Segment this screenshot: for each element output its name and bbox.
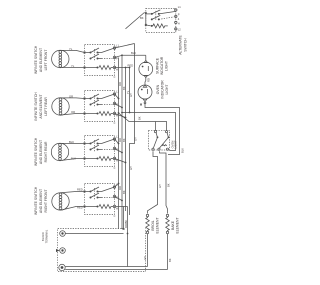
svg-text:OR: OR [69,94,73,98]
svg-text:LIGHT: LIGHT [165,61,169,71]
svg-text:BLOCK: BLOCK [41,232,45,241]
x mark below oven indicator [140,104,142,106]
row4 diagonals [115,184,119,188]
wire broil down [147,234,149,267]
bake element [166,214,170,233]
svg-text:INDICATOR: INDICATOR [161,80,165,99]
svg-text:AND ELEMENT: AND ELEMENT [39,189,43,213]
svg-text:C: C [114,122,116,125]
svg-text:BK: BK [122,190,126,194]
wire wrap 2 [122,113,176,151]
row1 wire RED to bus [115,67,130,69]
wire BU bottom row3 [62,159,85,161]
svg-text:AND ELEMENT: AND ELEMENT [39,48,43,72]
wire BLK to surface indicator [122,54,146,56]
svg-text:RD: RD [118,186,122,190]
svg-text:BROIL: BROIL [151,220,155,230]
terminal labels row4 [116,183,119,211]
terminal N [59,264,65,270]
wires down from oven light switch [148,151,158,213]
label INFINITE SWITCH AND ELEMENT LEFT FRONT [34,45,48,74]
row3 diagonals [115,139,119,144]
surface element RIGHT FRONT [52,193,69,210]
label INFINITE SWITCH AND ELEMENT RIGHT FRONT [34,186,48,215]
svg-text:SWITCH: SWITCH [184,38,188,52]
svg-text:INFINITE SWITCH: INFINITE SWITCH [34,186,38,215]
svg-text:GY: GY [134,137,138,141]
alternate infinite switch box [145,8,177,32]
svg-text:BK: BK [138,116,142,120]
svg-text:LEFT REAR: LEFT REAR [44,97,48,116]
svg-text:L1: L1 [116,90,119,94]
svg-text:BK: BK [166,183,170,187]
svg-text:BLK: BLK [69,140,74,144]
row1 diagonal to x134.5 [115,44,135,49]
infinite switch box row1 [84,45,116,76]
svg-text:BK: BK [122,138,126,142]
wire drop to left contact [155,122,157,131]
wire bus x134.5 [130,44,135,216]
svg-text:RED: RED [77,188,83,192]
surface element LEFT REAR [52,98,69,115]
wire RED bottom row4 [62,207,85,210]
svg-text:YL: YL [71,64,75,68]
terminal labels row3 [116,135,119,163]
wire between indicators [144,78,147,85]
svg-text:RED: RED [128,64,134,68]
svg-text:LEFT FRONT: LEFT FRONT [44,50,48,71]
svg-text:LIGHT: LIGHT [174,140,178,148]
row2 diagonals [115,94,119,99]
svg-text:OVEN: OVEN [156,84,160,94]
svg-text:ELEMENT: ELEMENT [155,217,159,233]
infinite switch box row2 [84,91,116,122]
svg-text:BLK: BLK [180,148,184,153]
wire bus x122.5 [121,55,123,229]
svg-text:RD/BK: RD/BK [124,220,128,228]
svg-text:RIGHT REAR: RIGHT REAR [44,141,48,162]
svg-text:C: C [114,167,116,170]
svg-text:C: C [114,215,116,218]
wire diagonal to alternate switch [126,12,145,28]
terminal circle below oven indicator [144,102,146,104]
terminal labels row1 [116,44,119,72]
ground arrow [56,249,60,252]
svg-text:GY: GY [158,184,162,188]
label INFINITE SWITCH AND ELEMENT LEFT REAR [34,92,48,121]
label ALTERNATE SWITCH [179,35,188,55]
svg-text:GY: GY [129,166,133,170]
alternate switch terminal labels [178,5,181,32]
wire OR top row2 [61,97,85,100]
wire from oven indicator down and right [145,104,180,155]
svg-text:INFINITE SWITCH: INFINITE SWITCH [34,137,38,166]
wire YL bottom row1 [62,67,85,69]
infinite switch box row3 [84,136,116,167]
svg-text:P: P [178,12,180,16]
wire bake down [167,234,169,270]
terminal L1 [60,231,66,237]
svg-text:GY: GY [143,256,147,260]
surface indicator light [139,60,153,77]
wire BK top row3 [60,142,85,144]
svg-text:YL: YL [69,47,73,51]
svg-text:BLK: BLK [131,51,136,55]
svg-text:H: H [116,68,118,72]
ground terminal [60,248,66,254]
svg-text:RIGHT FRONT: RIGHT FRONT [44,189,48,212]
svg-text:OR: OR [71,110,75,114]
svg-text:RED: RED [77,206,83,210]
terminal labels row2 [116,90,119,118]
row1 diagonal BLK wire [115,55,123,57]
svg-text:RD: RD [118,82,122,86]
wire bus x126.5 [125,68,127,212]
svg-text:C: C [114,76,116,79]
svg-text:BAKE: BAKE [171,220,175,230]
svg-text:AND ELEMENT: AND ELEMENT [39,140,43,164]
svg-text:BLK: BLK [71,156,76,160]
tiny connector labels under switch boxes [114,76,116,218]
wire from terminal L1 [65,233,123,235]
svg-text:ALTERNATE: ALTERNATE [179,35,183,55]
svg-text:INDICATOR: INDICATOR [160,56,164,75]
svg-text:INFINITE SWITCH: INFINITE SWITCH [34,92,38,121]
bus labels lower [118,186,126,194]
infinite switch box row4 [84,184,116,215]
svg-text:L1: L1 [116,135,119,139]
wire wrap 3 outer [119,113,167,130]
svg-text:LIGHT: LIGHT [165,85,169,95]
svg-text:INFINITE SWITCH: INFINITE SWITCH [34,45,38,74]
surface element RIGHT REAR [51,143,68,160]
svg-text:BK: BK [122,86,126,90]
X mark at bus drop [123,228,125,230]
wire YL top row1 [60,50,84,52]
svg-text:RD: RD [118,138,122,142]
wire row4 bottom to drop pair [116,206,128,208]
svg-text:ELEMENT: ELEMENT [175,217,179,233]
wire neutral 1 [65,266,147,268]
svg-text:4: 4 [178,17,180,21]
surface element LEFT FRONT [52,50,69,67]
svg-text:H: H [178,21,180,25]
svg-text:H: H [116,207,118,211]
wire OR bottom row2 [62,114,85,115]
svg-text:AND ELEMENT: AND ELEMENT [39,94,43,118]
svg-text:L1: L1 [178,5,181,9]
wire bus x118.5 [118,58,120,230]
svg-text:BK: BK [140,16,144,20]
junction dots row1 [121,54,123,56]
wire neutral 2 [65,269,167,271]
bus labels upper [118,82,130,94]
svg-text:SURFACE: SURFACE [156,57,160,74]
svg-text:BK: BK [168,258,172,262]
svg-text:L2: L2 [178,28,181,32]
svg-text:GY: GY [129,93,133,97]
svg-text:RD: RD [146,78,150,82]
broil element [146,214,150,233]
oven indicator light [138,85,152,102]
wire RED top row4 [61,192,85,193]
label INFINITE SWITCH AND ELEMENT RIGHT REAR [34,137,48,166]
svg-text:TERMINAL: TERMINAL [45,229,49,243]
